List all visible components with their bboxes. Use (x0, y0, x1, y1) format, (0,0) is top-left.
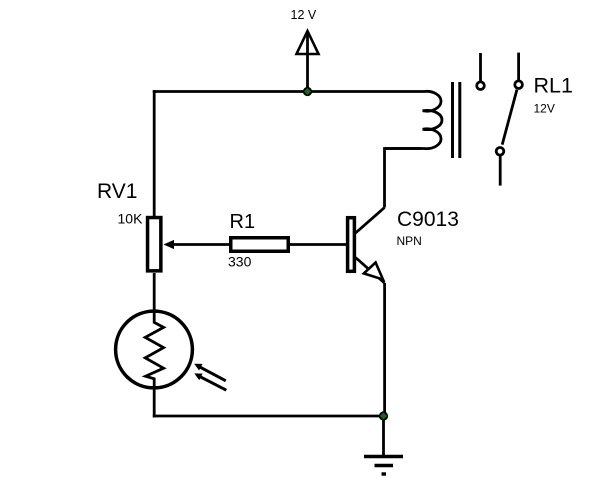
transistor Q1 C9013 (348, 208, 385, 284)
resistor R1 (231, 238, 289, 252)
wire RV1 to LDR (153, 273, 156, 312)
svg-text:330: 330 (228, 254, 252, 270)
node junction bottom (379, 411, 388, 420)
svg-text:RV1: RV1 (97, 180, 137, 203)
svg-text:C9013: C9013 (397, 208, 459, 231)
svg-text:R1: R1 (230, 211, 256, 233)
svg-text:12 V: 12 V (291, 8, 317, 22)
ground (364, 416, 403, 474)
relay contacts (477, 53, 523, 186)
LDR (116, 311, 227, 390)
svg-text:RL1: RL1 (534, 74, 573, 98)
wire collector vertical (385, 149, 422, 208)
power +12V symbol (297, 31, 319, 92)
wire left vertical (153, 90, 156, 216)
relay coil RL1 (385, 82, 460, 158)
node junction top (303, 87, 312, 96)
wire R1 to base (290, 243, 346, 246)
potentiometer RV1 (148, 218, 229, 271)
wire emitter vertical (383, 283, 386, 416)
wire top rail (153, 90, 415, 93)
svg-text:12V: 12V (534, 102, 555, 116)
wire LDR bottom (153, 389, 156, 418)
svg-text:NPN: NPN (397, 234, 422, 248)
svg-text:10K: 10K (118, 211, 144, 227)
wire bottom horizontal (153, 415, 384, 418)
